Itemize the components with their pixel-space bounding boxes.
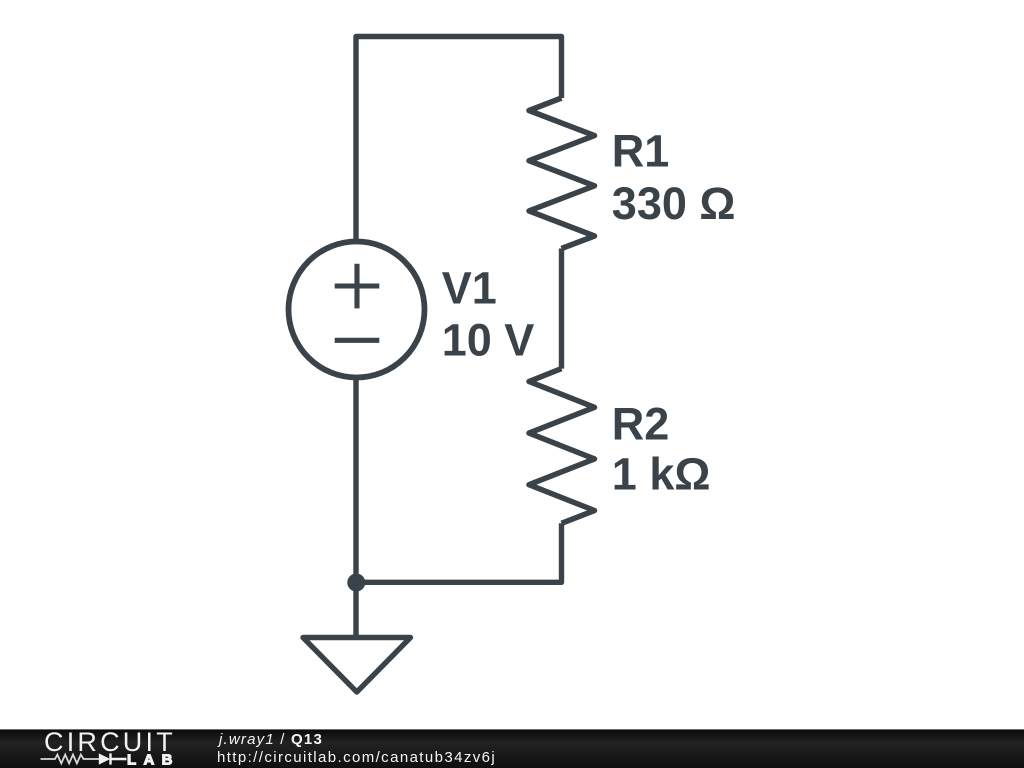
- svg-text:10 V: 10 V: [442, 315, 535, 366]
- wire: junction down to ground: [353, 582, 358, 637]
- CircuitLab logo diode symbol: [99, 753, 127, 764]
- svg-text:V1: V1: [442, 263, 497, 314]
- svg-text:1 kΩ: 1 kΩ: [612, 449, 711, 500]
- svg-text:330 Ω: 330 Ω: [612, 178, 736, 229]
- resistor R1: [529, 98, 595, 249]
- resistor R2: [529, 369, 595, 524]
- wire: V1 plus terminal up, top bus, down to R1: [356, 37, 562, 244]
- wire: V1 minus terminal down to junction: [353, 378, 358, 582]
- wire: R1 bottom to R2 top: [559, 249, 564, 369]
- svg-text:j.wray1 / Q13: j.wray1 / Q13: [217, 731, 323, 748]
- voltage source V1 circle: [289, 242, 425, 378]
- svg-text:http://circuitlab.com/canatub3: http://circuitlab.com/canatub34zv6j: [217, 749, 496, 766]
- svg-text:R1: R1: [612, 126, 670, 177]
- CircuitLab logo resistor squiggle: [41, 755, 99, 764]
- V1 plus sign: [335, 264, 380, 309]
- V1 minus sign: [335, 338, 380, 343]
- svg-text:LAB: LAB: [127, 752, 180, 768]
- svg-text:R2: R2: [612, 399, 670, 450]
- footer bar: [0, 729, 1024, 768]
- wire: R2 bottom to bottom bus to junction: [356, 523, 562, 582]
- junction node dot: [347, 574, 365, 592]
- ground symbol: [303, 638, 411, 693]
